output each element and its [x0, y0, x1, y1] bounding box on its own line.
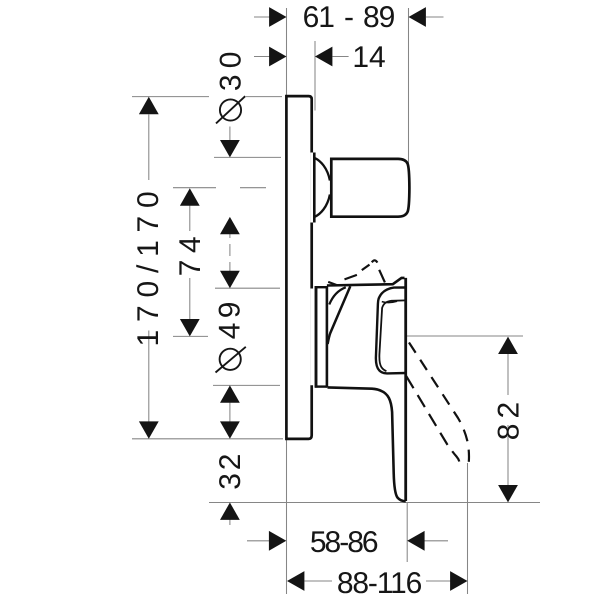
loop window inner rim	[379, 300, 405, 371]
extension line knob right	[408, 8, 410, 164]
dim 61-89 tails	[254, 16, 444, 18]
lever hub top edge and chamfer	[327, 278, 405, 286]
arrow 82 down	[498, 485, 518, 502]
lever sleeve top	[315, 286, 327, 288]
arrow 74 down	[180, 319, 200, 336]
knob neck upper curve	[315, 158, 330, 181]
dim 58-86 tails	[247, 540, 448, 542]
lever sleeve front edge	[315, 286, 318, 388]
loop window outer	[376, 288, 406, 374]
lever dashed arm lower line	[406, 376, 459, 461]
white cover over plate edge at knob neck	[310, 153, 315, 223]
extension line knob top	[214, 156, 281, 158]
svg-text:49: 49	[214, 297, 247, 339]
arrow 170/170 down	[139, 421, 159, 438]
arrow 74 up	[180, 188, 200, 205]
extension line lever pivot left	[173, 335, 208, 337]
extension line 58-86 right	[406, 503, 408, 562]
lever hub fillet	[329, 287, 346, 304]
svg-text:170/170: 170/170	[132, 183, 165, 346]
extension line 14 front	[314, 41, 316, 111]
knob neck lower curve	[315, 195, 330, 217]
arrow 58-86 right	[407, 531, 424, 551]
extension line circle 49 bottom	[213, 384, 280, 386]
arrow 14 right	[315, 47, 332, 67]
knob neck front edge	[313, 153, 316, 223]
arrow 61-89 right	[409, 7, 426, 27]
lever dashed arm upper line	[407, 339, 469, 462]
extension line plate-left/wall bottom	[286, 440, 288, 594]
arrow 88-116 left	[287, 571, 304, 591]
svg-text:61 - 89: 61 - 89	[303, 1, 395, 34]
dim d30 tail	[229, 127, 231, 142]
lever cone diagonal	[328, 286, 351, 344]
extension line plate-left/wall top	[286, 8, 288, 96]
loop window rim sliver	[382, 301, 397, 302]
dim d30-d49 connector dashes	[229, 234, 231, 272]
dim 32 bottom stub	[229, 519, 231, 525]
svg-text:74: 74	[174, 230, 207, 277]
extension line circle 49 top	[215, 287, 280, 289]
arrow d49 top down	[220, 271, 240, 288]
svg-text:58-86: 58-86	[310, 526, 378, 559]
extension line plate top	[132, 96, 282, 98]
center line knob axis	[173, 187, 266, 189]
arrow 170/170 up	[139, 97, 159, 114]
arrow 32 bottom up	[220, 503, 240, 520]
knob body	[331, 159, 409, 217]
arrow 14 left	[269, 47, 286, 67]
arrow 58-86 left	[269, 531, 286, 551]
extension line lever tip bottom	[209, 502, 540, 504]
svg-text:82: 82	[493, 397, 526, 440]
extension line plate bottom	[132, 438, 283, 440]
extension line lever pivot right / 82 top	[406, 335, 523, 337]
arrow d30 bottom up	[220, 217, 240, 234]
diameter symbol for 49	[216, 347, 246, 373]
svg-text:32: 32	[214, 451, 247, 490]
lever blade inner outline	[328, 387, 406, 501]
extension line 88-116 right	[467, 463, 469, 594]
lever sleeve bottom	[315, 385, 327, 387]
arrow 88-116 right	[450, 571, 467, 591]
lever outer right edge	[404, 278, 407, 501]
lever hub left edge	[326, 286, 329, 387]
arrow d30 down	[220, 140, 240, 157]
arrow 82 up	[498, 337, 518, 354]
svg-text:88-116: 88-116	[337, 567, 422, 600]
svg-text:14: 14	[352, 41, 385, 74]
dim 14 tails	[254, 56, 349, 58]
arrow 61-89 left	[269, 7, 286, 27]
lever dashed rear hump	[328, 260, 385, 285]
dim d49 tails	[229, 385, 231, 422]
diameter symbol for 30	[216, 96, 245, 123]
dim 88-116 tails	[305, 580, 451, 582]
white cover over plate edge at lever sleeve	[310, 289, 317, 386]
svg-text:30: 30	[215, 45, 248, 91]
dim 82 line	[507, 354, 509, 485]
dim 74 line	[189, 206, 191, 320]
dim 170/170 line	[148, 115, 150, 422]
arrow d49 bottom up	[220, 385, 240, 402]
arrow 32 top down	[220, 421, 240, 438]
escutcheon plate outline	[286, 96, 311, 439]
